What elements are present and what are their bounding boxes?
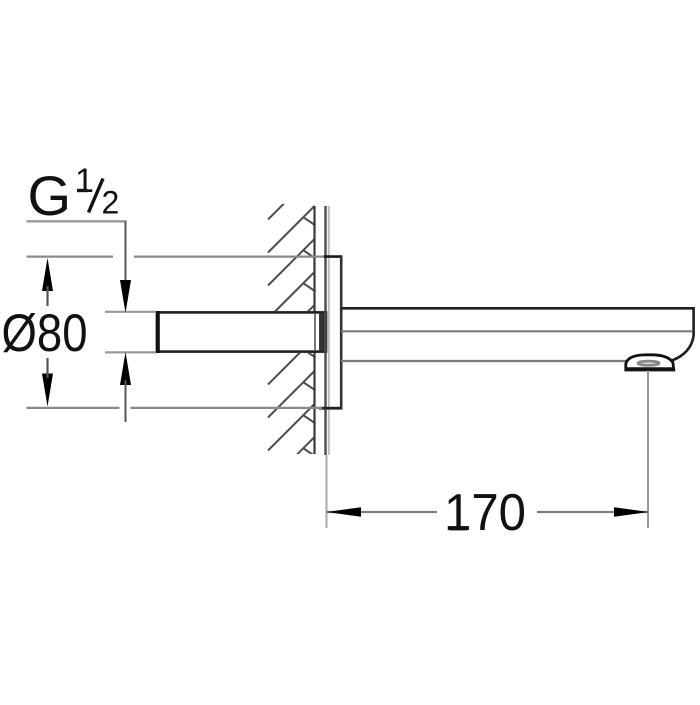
wall hatching xyxy=(268,173,316,484)
spout outlet xyxy=(626,355,674,370)
wall left surface line xyxy=(313,206,315,454)
svg-text:2: 2 xyxy=(102,185,120,221)
G1/2 leader vertical upper xyxy=(125,221,127,282)
superscript 1 foot serif xyxy=(77,189,88,192)
wall hole edge through tube xyxy=(314,314,316,350)
wall right surface light line xyxy=(328,206,330,455)
dia80 arrow down xyxy=(42,374,53,407)
fraction slash xyxy=(89,179,104,213)
spout tip curve xyxy=(672,336,694,361)
tube left end cap xyxy=(156,311,160,353)
tube bottom edge extension xyxy=(105,351,156,353)
spout mid line xyxy=(341,330,692,332)
dim 170 arrow left xyxy=(327,507,362,517)
tube end in wall xyxy=(319,313,327,351)
dim 170 line right xyxy=(537,511,649,513)
dia80 arrow up xyxy=(42,258,53,291)
outlet aerator xyxy=(638,361,659,365)
spout tail tube G1/2 xyxy=(157,312,326,351)
G1/2 leader underline xyxy=(27,220,127,222)
spout body top edge xyxy=(341,307,694,310)
spout tip right edge xyxy=(692,307,695,336)
dia80 lower tail xyxy=(46,358,48,378)
wall dimension extension line xyxy=(326,455,328,528)
svg-text:G: G xyxy=(28,164,72,227)
tube top edge extension xyxy=(105,311,156,313)
flange top edge xyxy=(324,255,343,258)
label G 1/2 xyxy=(28,162,120,227)
digit 1 foot serif xyxy=(449,526,467,530)
svg-text:170: 170 xyxy=(444,484,526,542)
outlet bottom lip xyxy=(625,367,675,370)
svg-text:Ø80: Ø80 xyxy=(2,304,88,363)
flange bottom edge xyxy=(319,407,343,410)
dia80 bottom extension line xyxy=(27,407,323,409)
G1/2 arrow down xyxy=(120,280,131,313)
outlet dimension extension line xyxy=(647,371,649,529)
dia80 top extension line xyxy=(27,256,325,258)
dim 170 line left xyxy=(327,511,438,513)
G1/2 arrow up xyxy=(120,352,131,385)
wall right surface line xyxy=(324,206,326,455)
svg-text:1: 1 xyxy=(75,162,94,200)
dia80 upper tail xyxy=(46,286,48,306)
spout bottom edge xyxy=(341,360,627,362)
G1/2 leader vertical lower xyxy=(125,380,127,422)
dim 170 arrow right xyxy=(614,507,649,517)
flange right edge xyxy=(340,255,343,409)
